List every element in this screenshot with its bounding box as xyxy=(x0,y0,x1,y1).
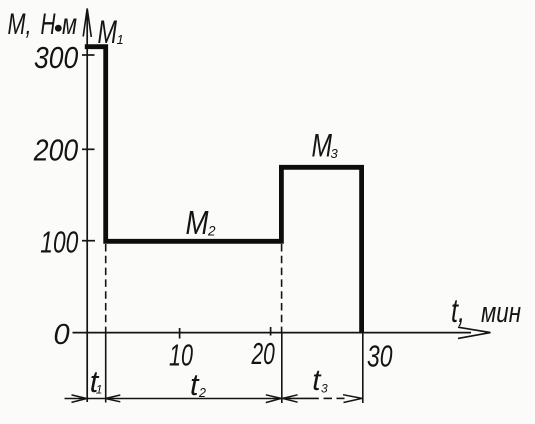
x-axis xyxy=(73,332,472,334)
svg-text:M: M xyxy=(312,128,333,164)
y-axis title bullet xyxy=(55,25,62,32)
y tick 200 xyxy=(82,148,95,150)
y tick 100 xyxy=(82,240,95,242)
svg-text:M: M xyxy=(186,204,209,241)
svg-text:t,: t, xyxy=(451,292,465,329)
t3 dimension dash 1 xyxy=(324,397,333,399)
dimension arrow right-pointing at x=281.2 xyxy=(266,395,281,403)
svg-text:2: 2 xyxy=(198,386,206,400)
extension line below axis at x=105.7 xyxy=(105,333,107,403)
svg-text:300: 300 xyxy=(34,40,78,75)
y-axis xyxy=(86,11,88,402)
svg-text:М,: М, xyxy=(8,8,32,41)
svg-text:M: M xyxy=(98,14,118,50)
svg-text:мин: мин xyxy=(481,297,521,329)
svg-text:20: 20 xyxy=(251,336,275,371)
svg-text:3: 3 xyxy=(321,382,328,396)
x-axis arrowhead xyxy=(458,327,491,338)
dashed drop line at t1 xyxy=(105,244,107,332)
svg-text:200: 200 xyxy=(33,132,78,167)
svg-text:1: 1 xyxy=(96,383,103,397)
svg-text:3: 3 xyxy=(331,146,339,161)
svg-text:0: 0 xyxy=(54,319,70,351)
t3 dimension left arrow at x=282.6 xyxy=(283,395,298,402)
y tick 300 xyxy=(82,54,95,56)
svg-text:30: 30 xyxy=(367,339,393,374)
svg-text:100: 100 xyxy=(40,224,78,259)
svg-text:Н: Н xyxy=(41,8,56,41)
y-axis arrowhead xyxy=(83,9,91,38)
load curve M1-M2-M3 step line xyxy=(85,47,362,333)
x tick 10 xyxy=(179,328,181,339)
dimension arrow right-pointing at x=86.7 xyxy=(72,395,87,403)
dashed drop line at t2 end xyxy=(281,244,283,332)
t3 dimension dash 2 xyxy=(337,397,345,399)
svg-text:1: 1 xyxy=(117,32,124,47)
x tick 20 xyxy=(270,327,272,336)
svg-text:м: м xyxy=(62,8,77,41)
t3 dimension solid segment xyxy=(283,397,319,399)
extension line below axis at x=281.8 xyxy=(281,333,283,403)
extension line below axis at x=362.8 xyxy=(362,333,364,403)
dimension arrow left-pointing at x=105.5 xyxy=(105,395,120,402)
svg-text:2: 2 xyxy=(207,224,216,239)
t3 dimension right arrow at x=361.9 xyxy=(343,395,362,403)
dimension line t1+t2 xyxy=(65,398,282,400)
